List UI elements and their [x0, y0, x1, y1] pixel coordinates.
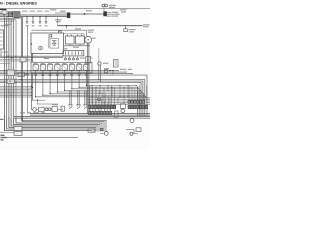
- wire stub down: [45, 17, 47, 22]
- gauge circle: [33, 108, 37, 112]
- pin connector cell: [145, 105, 147, 109]
- junction: [108, 85, 109, 86]
- junction: [96, 87, 97, 88]
- wire drop: [119, 86, 121, 97]
- wire bundle h left: [0, 95, 31, 97]
- junction: [9, 81, 10, 82]
- pin drop wire: [89, 86, 91, 106]
- wire pair down: [84, 91, 86, 105]
- junction: [39, 16, 40, 17]
- wire tick vertical: [117, 98, 119, 104]
- wire: [0, 17, 20, 19]
- pin connector cell: [92, 111, 94, 114]
- relay stub down: [56, 70, 58, 76]
- end connector box: [88, 129, 95, 132]
- junction: [4, 116, 5, 117]
- title rule left dark dash: [0, 8, 7, 10]
- pin drop wire: [104, 94, 106, 106]
- label text: [52, 104, 58, 105]
- pin connector cell: [104, 111, 106, 114]
- wire bundle h left: [0, 86, 31, 88]
- stub: [122, 107, 124, 110]
- bracket wire: [126, 130, 138, 134]
- pin drop wire: [143, 94, 145, 100]
- relay cell 4: [55, 65, 60, 71]
- label text: [120, 9, 127, 10]
- pin drop wire: [114, 87, 116, 105]
- wire label: [143, 26, 149, 27]
- battery plate long: [52, 43, 57, 45]
- pin drop wire: [101, 92, 103, 105]
- junction: [6, 96, 7, 97]
- label text: [1, 137, 7, 138]
- plug connector symbol: [84, 105, 88, 109]
- small box: [39, 107, 45, 111]
- wire pair down: [85, 91, 87, 105]
- wire inside box: [48, 38, 50, 48]
- connector box K2: [8, 12, 12, 17]
- wire down: [99, 65, 101, 81]
- wire end dot: [131, 73, 132, 74]
- wire bundle h right: [88, 100, 150, 102]
- connector symbol: [34, 75, 37, 77]
- terminal circle: [69, 58, 71, 60]
- small circle: [48, 108, 51, 111]
- relay diagonal: [69, 65, 74, 71]
- junction: [128, 85, 129, 86]
- relay diagonal: [48, 65, 53, 71]
- junction: [8, 91, 9, 92]
- terminal dot: [58, 30, 61, 33]
- relay diagonal: [33, 65, 38, 71]
- small box D: [136, 128, 141, 132]
- right bundle vertical 5: [138, 86, 140, 116]
- J1 row stripe: [14, 12, 19, 14]
- label text: [41, 112, 45, 113]
- wire vertical: [27, 26, 29, 114]
- wire down from relay: [71, 77, 73, 89]
- wire trunk lower: [30, 114, 150, 116]
- pin drop wire: [107, 95, 109, 105]
- label text: [50, 9, 57, 10]
- junction: [7, 56, 8, 57]
- wire drop: [127, 86, 129, 97]
- battery plate short: [53, 41, 56, 43]
- wire stub down: [39, 17, 41, 22]
- corner: [57, 91, 58, 92]
- wire stub down: [26, 17, 28, 22]
- relay cell 3: [48, 65, 53, 71]
- relay diagonal: [62, 65, 67, 71]
- junction at right bundle: [140, 90, 141, 91]
- wire: [30, 54, 32, 63]
- wire pair down: [78, 91, 80, 105]
- terminal symbol: [26, 22, 29, 24]
- junction: [13, 72, 14, 73]
- junction at right bundle: [137, 87, 138, 88]
- label text: [112, 16, 119, 17]
- switch box: [120, 104, 125, 109]
- relay stub down: [35, 70, 37, 76]
- inline connector: [7, 79, 15, 83]
- connector box K1: [2, 11, 7, 14]
- wire vertical: [22, 17, 24, 122]
- wire: [0, 60, 31, 62]
- wire second to battery: [64, 33, 85, 35]
- pin drop wire: [137, 91, 139, 101]
- wire: [0, 59, 31, 61]
- wire vertical: [88, 43, 90, 113]
- relay cell 1: [33, 65, 38, 71]
- relay cell 8: [84, 65, 89, 71]
- J1 row stripe: [14, 14, 19, 16]
- terminal label: [32, 25, 35, 26]
- wire drop: [107, 86, 109, 91]
- battery terminal: [70, 35, 72, 36]
- terminal symbol: [45, 22, 48, 24]
- terminal circle: [77, 58, 79, 60]
- relay diagonal: [55, 65, 60, 71]
- junction at right bundle: [145, 96, 146, 97]
- wire tick vertical: [104, 109, 106, 114]
- pin drop wire: [107, 103, 109, 112]
- label text: [92, 38, 96, 39]
- wire end dot: [125, 72, 126, 73]
- wire bundle h right: [88, 98, 150, 100]
- wire horizontal: [36, 96, 146, 98]
- wire bundle h right: [88, 103, 150, 105]
- wire bundle h right: [88, 102, 150, 104]
- motor circle: [104, 132, 108, 136]
- junction: [31, 92, 32, 93]
- junction splice: [84, 13, 86, 15]
- wire bundle h: [0, 70, 118, 72]
- pin connector cell: [143, 100, 145, 103]
- component tall box left: [0, 30, 4, 49]
- stub: [24, 73, 26, 75]
- corner: [86, 85, 87, 86]
- battery G2: [76, 36, 85, 44]
- junction: [32, 16, 33, 17]
- wire horizontal: [43, 94, 145, 96]
- corner: [50, 93, 51, 94]
- wire trunk top: [0, 14, 67, 16]
- terminal circle: [65, 58, 67, 60]
- stub: [65, 56, 67, 58]
- wire: [0, 19, 16, 21]
- nested corner wires bottom routing: [5, 119, 93, 132]
- pin drop wire: [98, 104, 100, 111]
- sensor circle: [121, 109, 125, 113]
- label text: [103, 63, 109, 64]
- junction: [66, 25, 68, 27]
- bottom long wire: [6, 137, 78, 139]
- wire label row: [37, 11, 43, 12]
- label text: [0, 119, 4, 120]
- relay label: [63, 63, 67, 64]
- tick inside tall box: [0, 40, 3, 42]
- pin drop wire: [95, 89, 97, 105]
- wire: [0, 20, 14, 22]
- pin connector cell: [89, 105, 91, 109]
- wire: [55, 12, 70, 14]
- wire drop: [91, 86, 93, 97]
- tiny box: [105, 70, 108, 73]
- pin connector cell: [101, 105, 103, 109]
- connector symbol: [78, 75, 81, 77]
- label text: [33, 112, 39, 113]
- junction at right bundle: [143, 93, 144, 94]
- wire tick vertical: [109, 98, 111, 104]
- wire: [32, 54, 34, 63]
- junction: [4, 70, 5, 71]
- wire: [37, 103, 58, 105]
- small motor circle: [98, 62, 101, 65]
- wire vertical: [86, 43, 88, 113]
- junction: [11, 57, 12, 58]
- wire vertical bundle: [12, 19, 14, 125]
- junction: [120, 96, 121, 97]
- pin connector cell: [110, 105, 112, 109]
- wire drop: [103, 89, 105, 97]
- inline connector X1: [67, 13, 70, 18]
- pin drop wire: [92, 101, 94, 111]
- control unit box A1: [31, 33, 64, 54]
- pin drop wire: [140, 92, 142, 100]
- wire down from relay: [42, 77, 44, 96]
- pin connector cell: [143, 105, 145, 109]
- fuse element: [68, 51, 70, 55]
- pin connector cell: [137, 105, 139, 109]
- connector: [61, 106, 64, 111]
- small circle: [130, 132, 133, 135]
- battery terminal: [81, 35, 83, 36]
- wire tick vertical: [94, 109, 96, 114]
- relay label: [70, 63, 74, 64]
- wire label row: [22, 11, 28, 12]
- junction: [21, 79, 22, 80]
- junction: [120, 85, 121, 86]
- wire bundle h left: [0, 90, 31, 92]
- wire tick vertical: [103, 98, 105, 104]
- inline connector: [7, 70, 15, 76]
- wire down from relay: [49, 77, 51, 94]
- small circle on bus: [98, 98, 101, 101]
- relay diagonal: [84, 65, 89, 71]
- stub: [37, 100, 39, 104]
- relay stub down: [49, 70, 51, 76]
- tick: [115, 62, 118, 64]
- wire down to starter: [86, 30, 88, 36]
- label text: [75, 28, 81, 29]
- terminal label: [39, 25, 42, 26]
- corner: [71, 88, 72, 89]
- wire bundle h left: [0, 89, 31, 91]
- label text: [1, 139, 4, 140]
- wire bundle h left: [0, 87, 31, 89]
- pin drop wire: [104, 101, 106, 111]
- connector symbol: [85, 75, 88, 77]
- junction: [8, 118, 9, 119]
- wire: [0, 13, 20, 15]
- fuse strip box F1: [63, 51, 84, 56]
- label text: [0, 25, 8, 26]
- label text: [60, 11, 66, 12]
- relay stub down: [78, 70, 80, 76]
- junction: [112, 70, 113, 71]
- wire tick vertical: [89, 109, 91, 114]
- tick: [115, 64, 118, 66]
- label text: [56, 21, 61, 22]
- junction at right bundle: [138, 88, 139, 89]
- wire: [79, 44, 81, 46]
- wire pair down: [69, 91, 71, 105]
- pin drop wire: [134, 89, 136, 100]
- tick: [104, 3, 106, 4]
- wire drop: [99, 86, 101, 94]
- pin connector cell: [137, 100, 139, 103]
- battery G1: [65, 36, 74, 44]
- wire down to small motor: [98, 48, 100, 62]
- pin connector cell: [131, 100, 133, 103]
- right bundle vertical 6: [136, 87, 138, 116]
- label text: [129, 29, 136, 30]
- terminal circle on wire: [58, 30, 61, 33]
- relay stub down: [71, 70, 73, 76]
- junction: [104, 96, 105, 97]
- wire down from relay: [56, 77, 58, 93]
- pin connector cell: [107, 105, 109, 109]
- junction: [11, 95, 12, 96]
- wire down from relay: [35, 77, 37, 97]
- junction: [100, 93, 101, 94]
- junction: [31, 85, 32, 86]
- pin drop wire: [101, 99, 103, 111]
- wire corner right 1: [0, 75, 147, 116]
- wire to horn: [70, 13, 103, 15]
- junction: [124, 87, 125, 88]
- component box: [86, 57, 91, 64]
- connector symbol: [49, 75, 52, 77]
- junction block J1: [13, 12, 20, 19]
- starter motor M1: [85, 36, 92, 43]
- wire vertical below relay box: [30, 73, 32, 109]
- wire corner right 3: [0, 81, 143, 116]
- junction: [45, 16, 46, 17]
- pin connector cell: [89, 111, 91, 114]
- junction: [11, 13, 12, 14]
- pin drop wire: [89, 99, 91, 111]
- wire horizontal: [86, 85, 136, 87]
- junction: [124, 96, 125, 97]
- label text: [115, 14, 120, 15]
- wire drop to battery: [83, 34, 85, 36]
- fuse element: [81, 51, 83, 55]
- stub: [100, 132, 104, 134]
- horn symbol B1: [102, 4, 105, 7]
- connector symbol: [41, 75, 44, 77]
- wire corner right 4: [0, 83, 141, 116]
- wire box1 to starter: [32, 29, 87, 31]
- relay cell 5: [62, 65, 67, 71]
- terminal label: [26, 25, 29, 26]
- wire bundle h: [0, 71, 126, 73]
- stub: [91, 57, 93, 59]
- fuse element: [71, 51, 73, 55]
- wire tick vertical: [123, 98, 125, 104]
- junction: [32, 87, 33, 88]
- small box: [52, 107, 57, 112]
- junction: [128, 96, 129, 97]
- wire: [107, 11, 112, 13]
- relay label: [34, 63, 38, 64]
- wire: [0, 63, 10, 65]
- wire label row: [45, 11, 50, 12]
- wire corner right 2: [0, 80, 145, 116]
- junction: [109, 70, 110, 71]
- pin connector cell: [140, 105, 142, 109]
- sensor circle: [39, 46, 43, 50]
- junction: [100, 81, 101, 82]
- label text: [129, 31, 134, 32]
- battery plate long: [52, 40, 57, 42]
- relay diagonal: [77, 65, 82, 71]
- wire trunk bottom: [0, 16, 67, 18]
- wire: [103, 7, 105, 12]
- junction: [98, 79, 99, 80]
- wire: [31, 99, 45, 101]
- sensor dot: [40, 48, 41, 49]
- label text: [27, 112, 31, 113]
- junction at right bundle: [136, 85, 137, 86]
- pin drop wire: [110, 86, 112, 106]
- pin drop wire: [98, 90, 100, 105]
- pin connector cell: [95, 111, 97, 114]
- label text: [80, 58, 85, 59]
- junction: [37, 100, 38, 101]
- label text: [73, 47, 79, 48]
- pin connector cell: [128, 100, 130, 103]
- label text: [20, 112, 25, 113]
- fuse and relay box A2: [31, 62, 92, 73]
- pin connector cell: [98, 111, 100, 114]
- junction: [96, 96, 97, 97]
- small stack box: [115, 111, 119, 117]
- terminal symbol: [32, 22, 35, 24]
- horn symbol B2: [105, 4, 108, 7]
- battery terminal: [77, 35, 79, 36]
- terminal circle: [26, 73, 28, 75]
- junction: [6, 56, 7, 57]
- wire label row: [30, 11, 36, 12]
- relay label: [55, 63, 59, 64]
- wire vertical bundle: [6, 18, 8, 130]
- plug connector symbol: [69, 105, 73, 109]
- pin drop wire: [110, 104, 112, 111]
- stub: [69, 56, 71, 58]
- pin connector cell: [140, 100, 142, 103]
- pin drop wire: [95, 103, 97, 112]
- tick inside tall box: [0, 44, 3, 46]
- label text: [109, 5, 116, 6]
- wire pair down: [77, 91, 79, 105]
- pin connector cell: [134, 105, 136, 109]
- wire trunk lower: [14, 116, 150, 118]
- fuse element: [74, 51, 76, 55]
- junction at right bundle: [144, 95, 145, 96]
- label text: [2, 52, 8, 53]
- junction: [104, 88, 105, 89]
